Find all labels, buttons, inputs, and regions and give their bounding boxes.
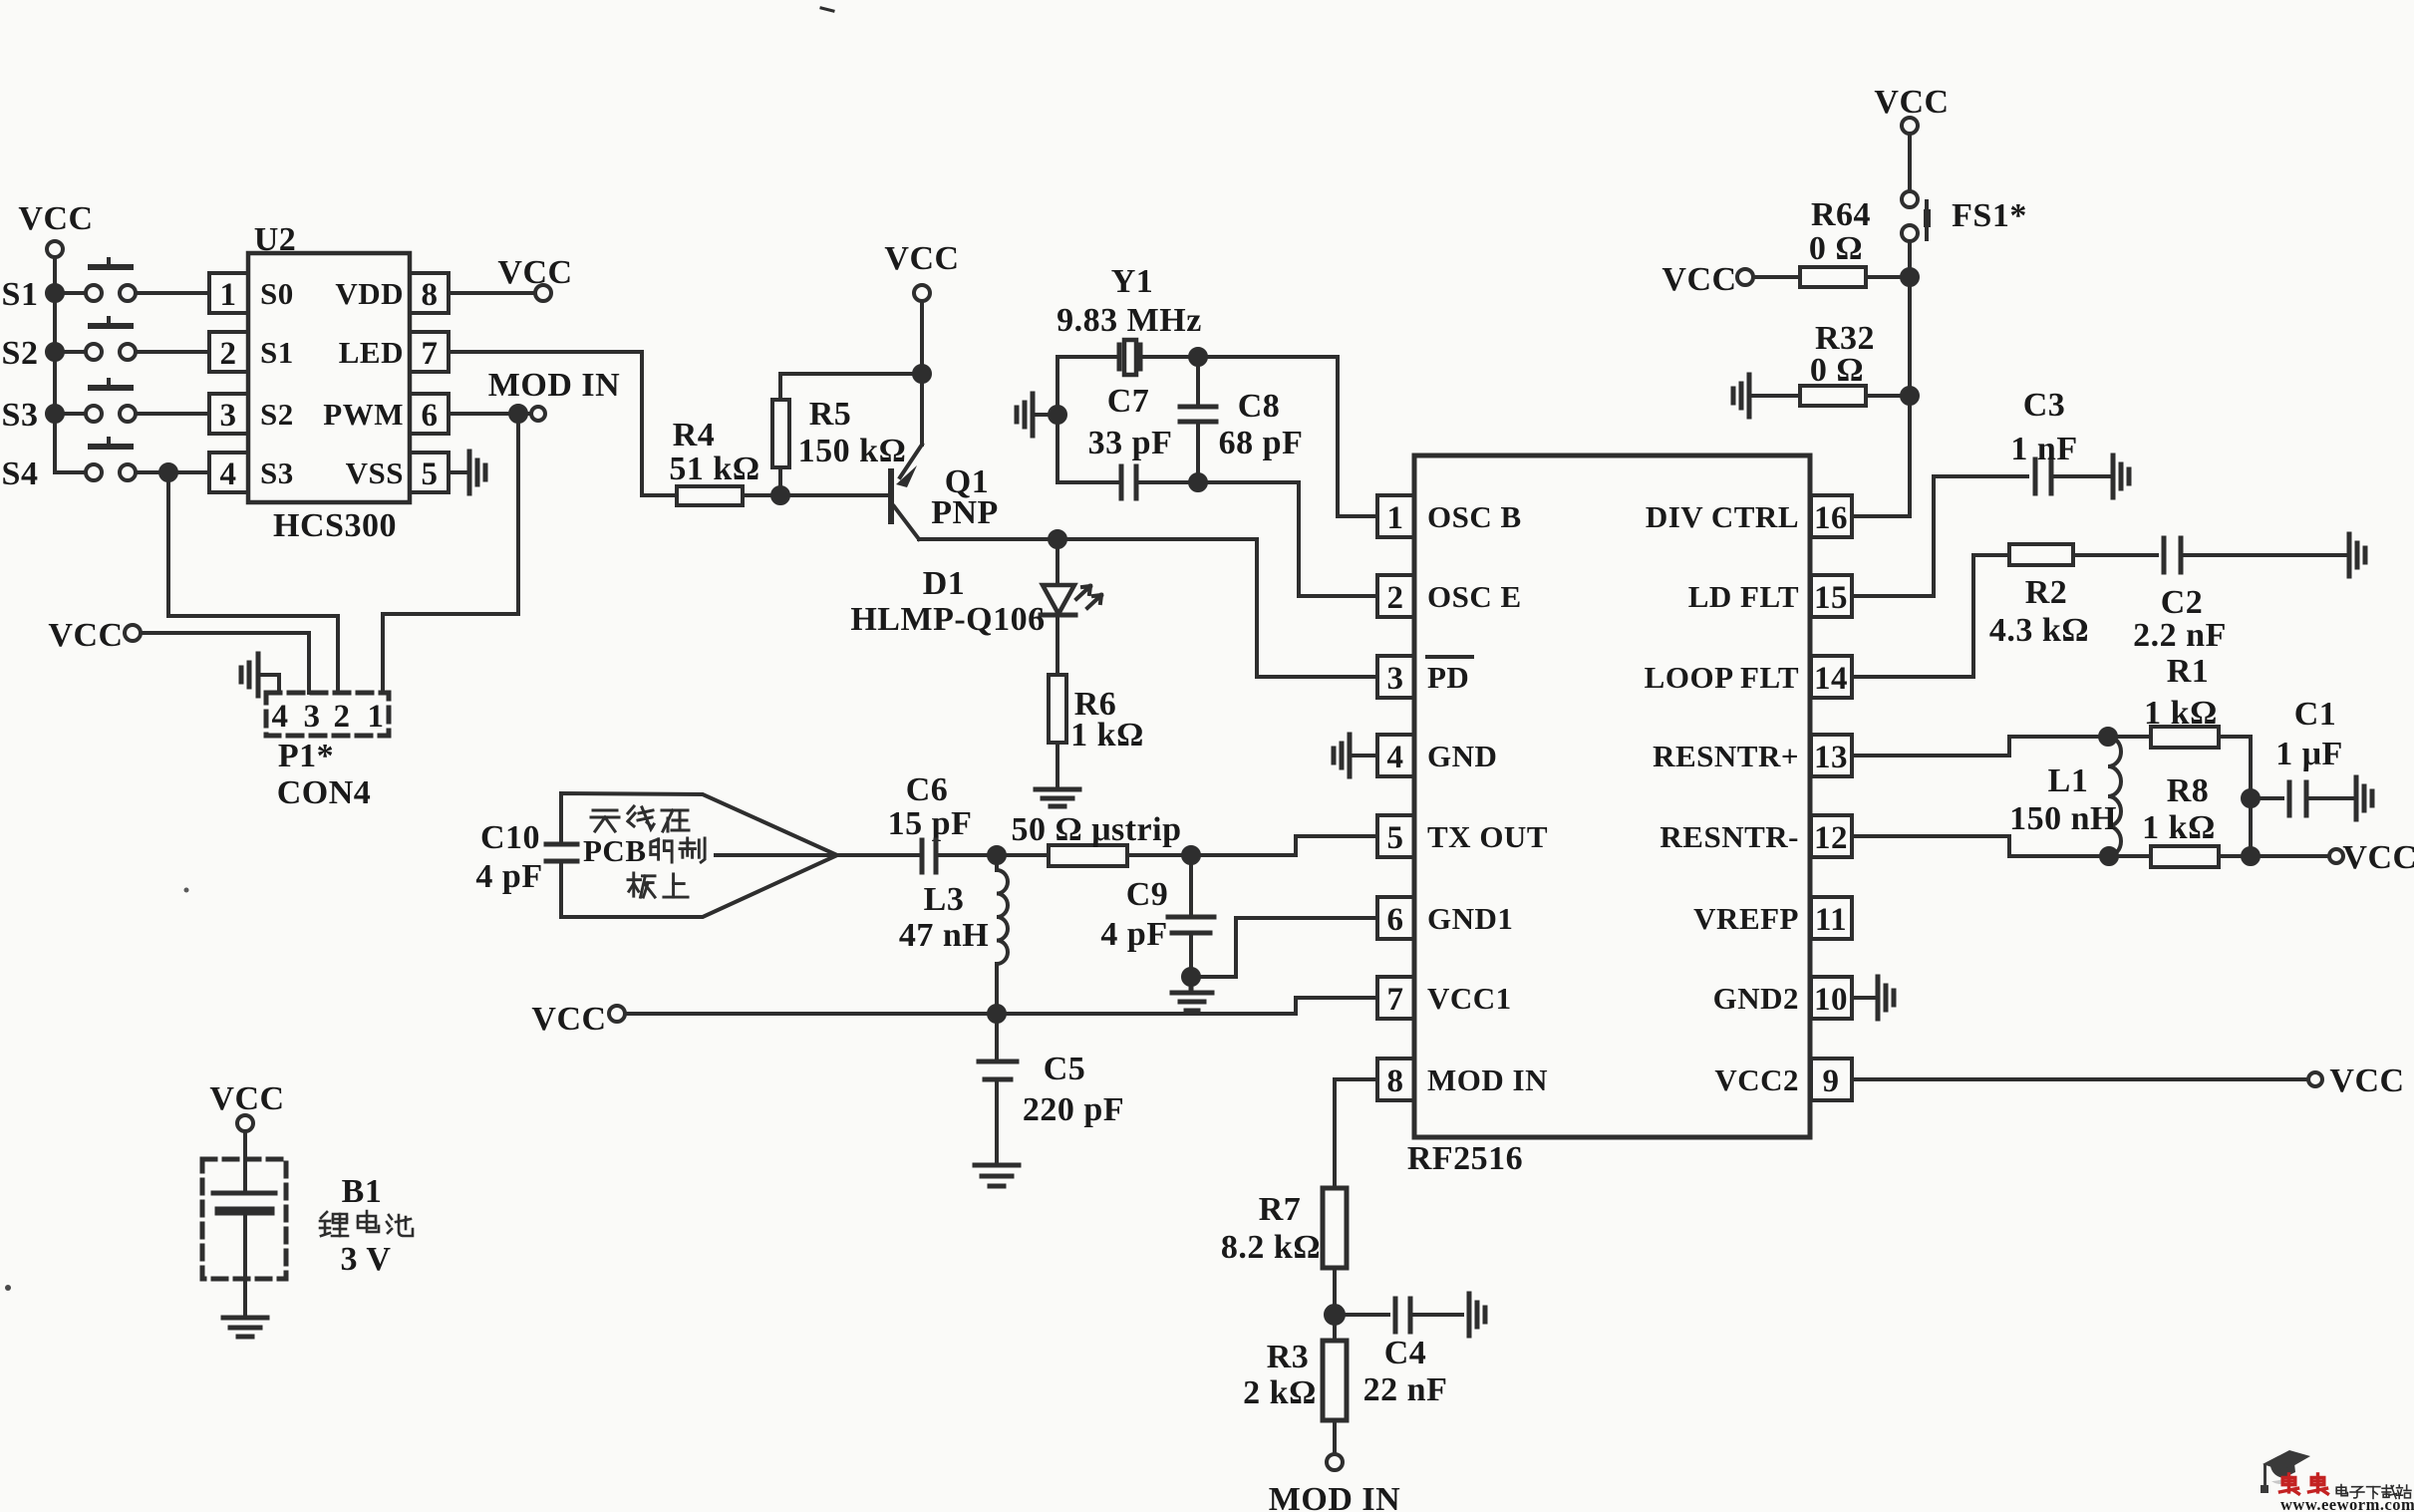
ground (C2) [2349, 534, 2365, 576]
resistor R7 8.2k [1221, 1188, 1347, 1268]
svg-text:R8: R8 [2167, 772, 2210, 809]
transistor Q1 PNP [891, 374, 999, 539]
wire ground to R32 [1749, 394, 1800, 398]
wire MOD IN pin8 to R7 [1335, 1079, 1377, 1188]
watermark logo (eeworm) [2261, 1450, 2310, 1493]
svg-text:GND: GND [1427, 739, 1497, 773]
wire R1 right [2219, 737, 2251, 856]
junction ground tap [1050, 407, 1065, 423]
svg-text:S4: S4 [2, 455, 39, 492]
svg-text:7: 7 [422, 336, 439, 372]
resistor R2 4.3k [1989, 544, 2089, 649]
wire S4 net to P1 pin2 [168, 472, 338, 693]
resistor R64 0ohm [1800, 196, 1871, 287]
U2 pin 2 box [209, 332, 248, 372]
svg-text:1: 1 [220, 277, 237, 313]
wire VCC to P1 pin3 [141, 633, 309, 693]
junction C1 node [2243, 790, 2259, 806]
switch S4 [55, 439, 136, 480]
svg-text:L1: L1 [2048, 762, 2089, 799]
wire S4 to pin4 [136, 470, 209, 474]
crystal Y1 9.83MHz [1056, 263, 1202, 375]
svg-text:VSS: VSS [346, 455, 404, 490]
ground (C4) [1469, 1294, 1485, 1336]
power terminal VCC (switch rail) [18, 200, 93, 257]
capacitor C4 22nF [1335, 1299, 1462, 1408]
svg-text:2 kΩ: 2 kΩ [1243, 1374, 1317, 1411]
junction R8 node [2243, 848, 2259, 864]
svg-text:4 pF: 4 pF [1100, 916, 1167, 953]
junction R64 [1902, 269, 1918, 285]
svg-text:VCC: VCC [2342, 839, 2414, 876]
svg-text:5: 5 [422, 456, 439, 492]
svg-text:C5: C5 [1044, 1051, 1086, 1087]
power terminal VCC (VCC2) [2308, 1062, 2405, 1099]
svg-text:13: 13 [1814, 740, 1848, 775]
svg-text:PWM: PWM [323, 397, 404, 432]
resistor 50 ohm microstrip [1011, 811, 1181, 866]
wire bottom branch right to OSC E [1136, 482, 1377, 596]
wire pin12 to resonator node [1852, 836, 2151, 856]
resistor R5 150k [772, 396, 906, 469]
scan speck [821, 8, 833, 11]
svg-text:1 μF: 1 μF [2275, 736, 2343, 772]
svg-text:50 Ω μstrip: 50 Ω μstrip [1011, 811, 1181, 848]
svg-text:11: 11 [1815, 902, 1847, 938]
U2 pin 7 box [410, 332, 449, 372]
svg-text:VREFP: VREFP [1693, 901, 1799, 936]
svg-text:9.83 MHz: 9.83 MHz [1056, 302, 1202, 339]
svg-text:www.eeworm.com: www.eeworm.com [2280, 1495, 2414, 1512]
svg-text:6: 6 [422, 398, 439, 434]
svg-text:4: 4 [220, 456, 237, 492]
junction R32 [1902, 388, 1918, 404]
ground (R32) [1733, 375, 1749, 417]
svg-text:S2: S2 [2, 335, 39, 372]
svg-text:8: 8 [422, 277, 439, 313]
ground (C5) [975, 1165, 1019, 1186]
RF2516 pin 8 box [1377, 1058, 1414, 1100]
svg-text:S2: S2 [260, 397, 294, 432]
svg-text:PD: PD [1427, 660, 1469, 695]
U2 pin 6 box [410, 394, 449, 434]
capacitor C3 1nF [2010, 387, 2113, 493]
U2 pin 1 box [209, 273, 248, 313]
svg-text:4: 4 [272, 699, 289, 735]
junction R5 bottom [772, 487, 788, 503]
svg-text:U2: U2 [254, 221, 297, 258]
svg-text:VCC2: VCC2 [1714, 1062, 1799, 1097]
wire VCC to FS1 [1908, 134, 1912, 191]
wire R5 top to VCC rail [780, 374, 922, 400]
svg-text:RF2516: RF2516 [1407, 1140, 1523, 1177]
wire MOD IN net to P1 pin1 [383, 414, 518, 693]
resistor R1 1k [2144, 653, 2219, 748]
svg-text:9: 9 [1823, 1063, 1840, 1099]
wire LED net into R4 [642, 493, 677, 497]
wire pin13 to resonator node [1852, 737, 2151, 756]
U2 pin 5 box [410, 453, 449, 492]
svg-text:VCC: VCC [18, 200, 93, 237]
svg-text:C8: C8 [1238, 388, 1281, 425]
RF2516 pin 16 box [1811, 495, 1852, 537]
wire ustrip to TX OUT [1127, 836, 1377, 855]
RF2516 pin 3 box [1377, 656, 1414, 698]
svg-text:C2: C2 [2161, 584, 2204, 621]
RF2516 pin 4 box [1377, 735, 1414, 776]
wire R7 to node [1333, 1268, 1337, 1341]
ground (R6) [1036, 789, 1079, 806]
RF2516 pin label PD [1427, 657, 1472, 695]
svg-text:S3: S3 [2, 397, 39, 434]
junction C8 top [1190, 349, 1206, 365]
wire S3 to pin3 [136, 412, 209, 416]
svg-text:PNP: PNP [931, 494, 999, 531]
wire C9 node to GND1 pin6 [1191, 918, 1377, 977]
svg-text:220 pF: 220 pF [1023, 1091, 1124, 1128]
svg-text:3: 3 [220, 398, 237, 434]
wire to ground (osc) [1033, 413, 1057, 417]
svg-text:MOD IN: MOD IN [488, 367, 620, 404]
capacitor C8 68pF [1180, 357, 1303, 482]
svg-text:VCC: VCC [1661, 261, 1736, 298]
wire S1 to pin1 [136, 291, 209, 295]
RF2516 pin 2 box [1377, 575, 1414, 617]
svg-text:HCS300: HCS300 [273, 507, 397, 544]
RF2516 pin 10 box [1811, 977, 1852, 1019]
scan speck [5, 1285, 11, 1291]
svg-text:C9: C9 [1126, 876, 1169, 913]
ground (P1 pin4) [241, 654, 258, 696]
resistor R32 0ohm [1800, 320, 1875, 406]
wire pin15 to C3 [1852, 476, 2027, 596]
wire VCC rail vertical [53, 257, 57, 472]
junction C5 tap [989, 1006, 1005, 1022]
wire pin7 LED net [449, 352, 642, 495]
svg-text:16: 16 [1814, 500, 1848, 536]
ground (oscillator) [1017, 394, 1033, 436]
svg-text:3 V: 3 V [341, 1241, 392, 1278]
svg-text:VCC: VCC [884, 240, 959, 277]
wire crystal left [1057, 355, 1119, 359]
svg-text:TX OUT: TX OUT [1427, 819, 1548, 854]
power terminal VCC (Q1) [884, 240, 959, 301]
svg-text:R2: R2 [2025, 574, 2068, 611]
svg-text:MOD IN: MOD IN [1269, 1481, 1400, 1512]
wire pin5 to ground [449, 470, 469, 474]
wire VCC to R64 [1753, 275, 1800, 279]
RF2516 pin 11 box [1811, 897, 1852, 939]
svg-text:VCC: VCC [497, 254, 572, 291]
inductor L3 47nH [899, 855, 1008, 1014]
wire collector node to D1 [1056, 539, 1059, 585]
capacitor C9 4pF [1100, 855, 1214, 977]
ground (C3) [2113, 455, 2129, 497]
svg-text:C10: C10 [480, 819, 540, 856]
svg-text:1 nF: 1 nF [2010, 431, 2077, 467]
svg-text:LD FLT: LD FLT [1688, 579, 1799, 614]
battery B1 3V lithium [202, 1159, 413, 1279]
svg-text:S3: S3 [260, 455, 294, 490]
svg-text:1 kΩ: 1 kΩ [2144, 695, 2218, 732]
resistor R8 1k [2142, 772, 2219, 867]
svg-text:7: 7 [1387, 982, 1404, 1018]
RF2516 pin 5 box [1377, 815, 1414, 857]
junction C9 bottom [1183, 969, 1199, 985]
U2 pin 3 box [209, 394, 248, 434]
svg-text:6: 6 [1387, 902, 1404, 938]
svg-text:C6: C6 [906, 771, 949, 808]
resistor R4 51k [669, 417, 759, 505]
wire R5 bottom [778, 467, 782, 495]
wire battery to ground [243, 1211, 247, 1318]
wire R32 to node [1866, 394, 1910, 398]
svg-text:12: 12 [1814, 820, 1848, 856]
svg-text:1 kΩ: 1 kΩ [1070, 717, 1144, 754]
power terminal VCC (R64) [1661, 261, 1753, 298]
capacitor C6 15pF [888, 771, 973, 872]
svg-text:14: 14 [1814, 661, 1848, 697]
svg-text:GND1: GND1 [1427, 901, 1513, 936]
svg-text:CON4: CON4 [277, 774, 372, 811]
RF2516 pin 6 box [1377, 897, 1414, 939]
svg-text:R1: R1 [2167, 653, 2210, 690]
power terminal VCC (P1 pin3) [48, 617, 141, 654]
resistor R3 2k [1243, 1339, 1347, 1420]
svg-text:4.3 kΩ: 4.3 kΩ [1989, 612, 2089, 649]
wire R3 to MOD IN terminal [1333, 1420, 1337, 1454]
capacitor C5 220pF [979, 1014, 1124, 1164]
wire pin6 PWM to MOD IN [449, 412, 530, 416]
power terminal VCC (FS1) [1874, 84, 1949, 134]
wire R8 to VCC [2219, 854, 2329, 858]
svg-text:P1*: P1* [278, 738, 334, 774]
wire R4 to Q1 base [743, 493, 890, 497]
RF2516 pin 15 box [1811, 575, 1852, 617]
wire R64 to node [1866, 275, 1910, 279]
U2 pin 4 box [209, 453, 248, 492]
junction R7/R3/C4 [1326, 1306, 1344, 1324]
svg-text:VCC: VCC [209, 1080, 284, 1117]
svg-text:S1: S1 [2, 276, 39, 313]
wire FS1 down to pin16 [1852, 241, 1910, 516]
wire Q1 collector to PD pin3 [919, 539, 1377, 677]
junction emitter/VCC [914, 366, 930, 382]
ground (C1) [2356, 777, 2372, 819]
junction S3 rail [47, 406, 63, 422]
IC U1 RF2516 body [1407, 455, 1810, 1177]
svg-text:C1: C1 [2294, 696, 2337, 733]
wire VCC to battery [243, 1131, 247, 1193]
svg-text:VCC: VCC [2329, 1062, 2404, 1099]
junction C8 bottom [1190, 474, 1206, 490]
capacitor C10 4pF [475, 819, 577, 895]
svg-text:47 nH: 47 nH [899, 917, 989, 954]
capacitor C2 2.2nF [2133, 538, 2349, 654]
ground (RF2516 GND2 pin10) [1878, 977, 1894, 1019]
svg-text:1 kΩ: 1 kΩ [2142, 809, 2216, 846]
svg-text:VCC: VCC [1874, 84, 1949, 121]
svg-text:VCC: VCC [48, 617, 123, 654]
LED D1 HLMP-Q106 [850, 565, 1101, 638]
svg-text:R3: R3 [1267, 1339, 1310, 1375]
ground (RF2516 GND pin4) [1334, 735, 1350, 776]
wire left branch down [1056, 357, 1059, 482]
RF2516 pin 1 box [1377, 495, 1414, 537]
resistor R6 1k [1049, 675, 1144, 754]
terminal MOD IN [488, 367, 620, 421]
antenna on PCB (note flag) [561, 793, 837, 917]
svg-text:LED: LED [339, 335, 404, 370]
wire S2 to pin2 [136, 350, 209, 354]
svg-text:L3: L3 [924, 881, 965, 918]
power terminal VCC (VCC1 feed) [531, 1001, 625, 1038]
svg-text:15: 15 [1814, 580, 1848, 616]
svg-text:VCC: VCC [531, 1001, 606, 1038]
junction L1 top [2100, 729, 2116, 745]
svg-text:RESNTR+: RESNTR+ [1653, 739, 1799, 773]
junction L1 bottom [2101, 848, 2117, 864]
wire pin10 to ground [1852, 996, 1878, 1000]
svg-text:2: 2 [334, 699, 351, 735]
svg-text:RESNTR-: RESNTR- [1660, 819, 1799, 854]
svg-text:B1: B1 [342, 1173, 383, 1210]
junction MOD IN tap [510, 406, 526, 422]
svg-text:8: 8 [1387, 1063, 1404, 1099]
svg-text:S1: S1 [260, 335, 294, 370]
ground (battery) [223, 1318, 267, 1337]
switch S2 [55, 318, 136, 360]
power terminal VCC (U2 VDD) [497, 254, 572, 301]
wire bottom branch left [1057, 480, 1121, 484]
svg-text:MOD IN: MOD IN [1427, 1062, 1548, 1097]
wire crystal right to OSC B [1140, 357, 1377, 516]
wire pin4 to ground [1350, 754, 1377, 757]
svg-text:LOOP FLT: LOOP FLT [1645, 660, 1799, 695]
svg-text:2.2 nF: 2.2 nF [2133, 617, 2227, 654]
wire pin8 to VCC [449, 291, 535, 295]
RF2516 pin 9 box [1811, 1058, 1852, 1100]
svg-text:VDD: VDD [335, 276, 404, 311]
U2 pin 8 box [410, 273, 449, 313]
junction C9 tap [1183, 847, 1199, 863]
wire VCC feed to VCC1 pin7 [625, 998, 1377, 1014]
RF2516 pin 14 box [1811, 656, 1852, 698]
svg-text:OSC B: OSC B [1427, 499, 1522, 534]
junction S4 / P1 tap [160, 464, 176, 480]
svg-text:HLMP-Q106: HLMP-Q106 [850, 601, 1045, 638]
svg-text:150 kΩ: 150 kΩ [798, 433, 907, 469]
wire D1 to R6 [1056, 615, 1059, 675]
capacitor C7 33pF [1088, 383, 1173, 498]
svg-text:4: 4 [1387, 740, 1404, 775]
capacitor C1 1uF [2251, 696, 2356, 815]
svg-text:1: 1 [368, 699, 385, 735]
svg-text:150 nH: 150 nH [2009, 800, 2117, 837]
svg-text:3: 3 [1387, 661, 1404, 697]
wire VCC to emitter [920, 301, 924, 374]
RF2516 pin 12 box [1811, 815, 1852, 857]
svg-text:S0: S0 [260, 276, 294, 311]
svg-text:15 pF: 15 pF [888, 805, 973, 842]
inductor L1 150nH [2009, 737, 2121, 856]
pushbutton FS1* [1902, 191, 2027, 241]
svg-text:0 Ω: 0 Ω [1809, 230, 1863, 267]
svg-text:C3: C3 [2023, 387, 2066, 424]
svg-text:DIV CTRL: DIV CTRL [1646, 499, 1799, 534]
svg-text:OSC E: OSC E [1427, 579, 1522, 614]
RF2516 pin 7 box [1377, 977, 1414, 1019]
svg-text:0 Ω: 0 Ω [1810, 352, 1864, 389]
svg-text:R64: R64 [1811, 196, 1871, 233]
ground (C9) [1172, 977, 1212, 1011]
wire R2 to C2 [2073, 553, 2157, 557]
svg-text:C7: C7 [1107, 383, 1150, 420]
wire ground to P1 pin4 [258, 675, 279, 693]
svg-text:FS1*: FS1* [1952, 197, 2027, 234]
junction L3 tap [989, 847, 1005, 863]
svg-text:Y1: Y1 [1111, 263, 1154, 300]
svg-text:R7: R7 [1259, 1191, 1302, 1228]
junction D1 tap [1050, 531, 1065, 547]
scan speck [184, 888, 189, 893]
wire pin9 VCC2 to VCC [1852, 1077, 2308, 1081]
svg-text:GND2: GND2 [1713, 981, 1799, 1016]
junction S2 rail [47, 344, 63, 360]
svg-text:2: 2 [220, 336, 237, 372]
svg-text:10: 10 [1814, 982, 1848, 1018]
svg-text:C4: C4 [1384, 1335, 1427, 1371]
switch S1 [55, 259, 136, 301]
wire R6 to ground [1056, 743, 1059, 789]
svg-text:D1: D1 [923, 565, 966, 602]
ground (U2 VSS) [469, 452, 485, 493]
svg-text:33 pF: 33 pF [1088, 425, 1173, 461]
svg-text:3: 3 [304, 699, 321, 735]
svg-text:22 nF: 22 nF [1363, 1371, 1448, 1408]
svg-text:4 pF: 4 pF [475, 858, 542, 895]
power terminal VCC (battery) [209, 1080, 284, 1131]
junction S1 rail [47, 285, 63, 301]
IC U2 HCS300 body [248, 221, 410, 544]
svg-text:51 kΩ: 51 kΩ [669, 451, 759, 487]
wire C6 to ustrip [936, 853, 1049, 857]
power terminal VCC (resonator) [2329, 839, 2414, 876]
svg-text:68 pF: 68 pF [1219, 425, 1304, 461]
svg-text:8.2 kΩ: 8.2 kΩ [1221, 1229, 1321, 1266]
connector P1 CON4 [266, 693, 389, 811]
terminal MOD IN (bottom) [1269, 1454, 1400, 1512]
svg-text:VCC1: VCC1 [1427, 981, 1512, 1016]
svg-text:PCB: PCB [583, 833, 647, 868]
switch S3 [55, 380, 136, 422]
svg-text:1: 1 [1387, 500, 1404, 536]
svg-text:R4: R4 [673, 417, 716, 454]
wire antenna tip to C6 [837, 853, 922, 857]
svg-text:2: 2 [1387, 580, 1404, 616]
svg-text:R5: R5 [809, 396, 852, 433]
wire pin14 to R2 [1852, 555, 2009, 677]
RF2516 pin 13 box [1811, 735, 1852, 776]
svg-text:5: 5 [1387, 820, 1404, 856]
